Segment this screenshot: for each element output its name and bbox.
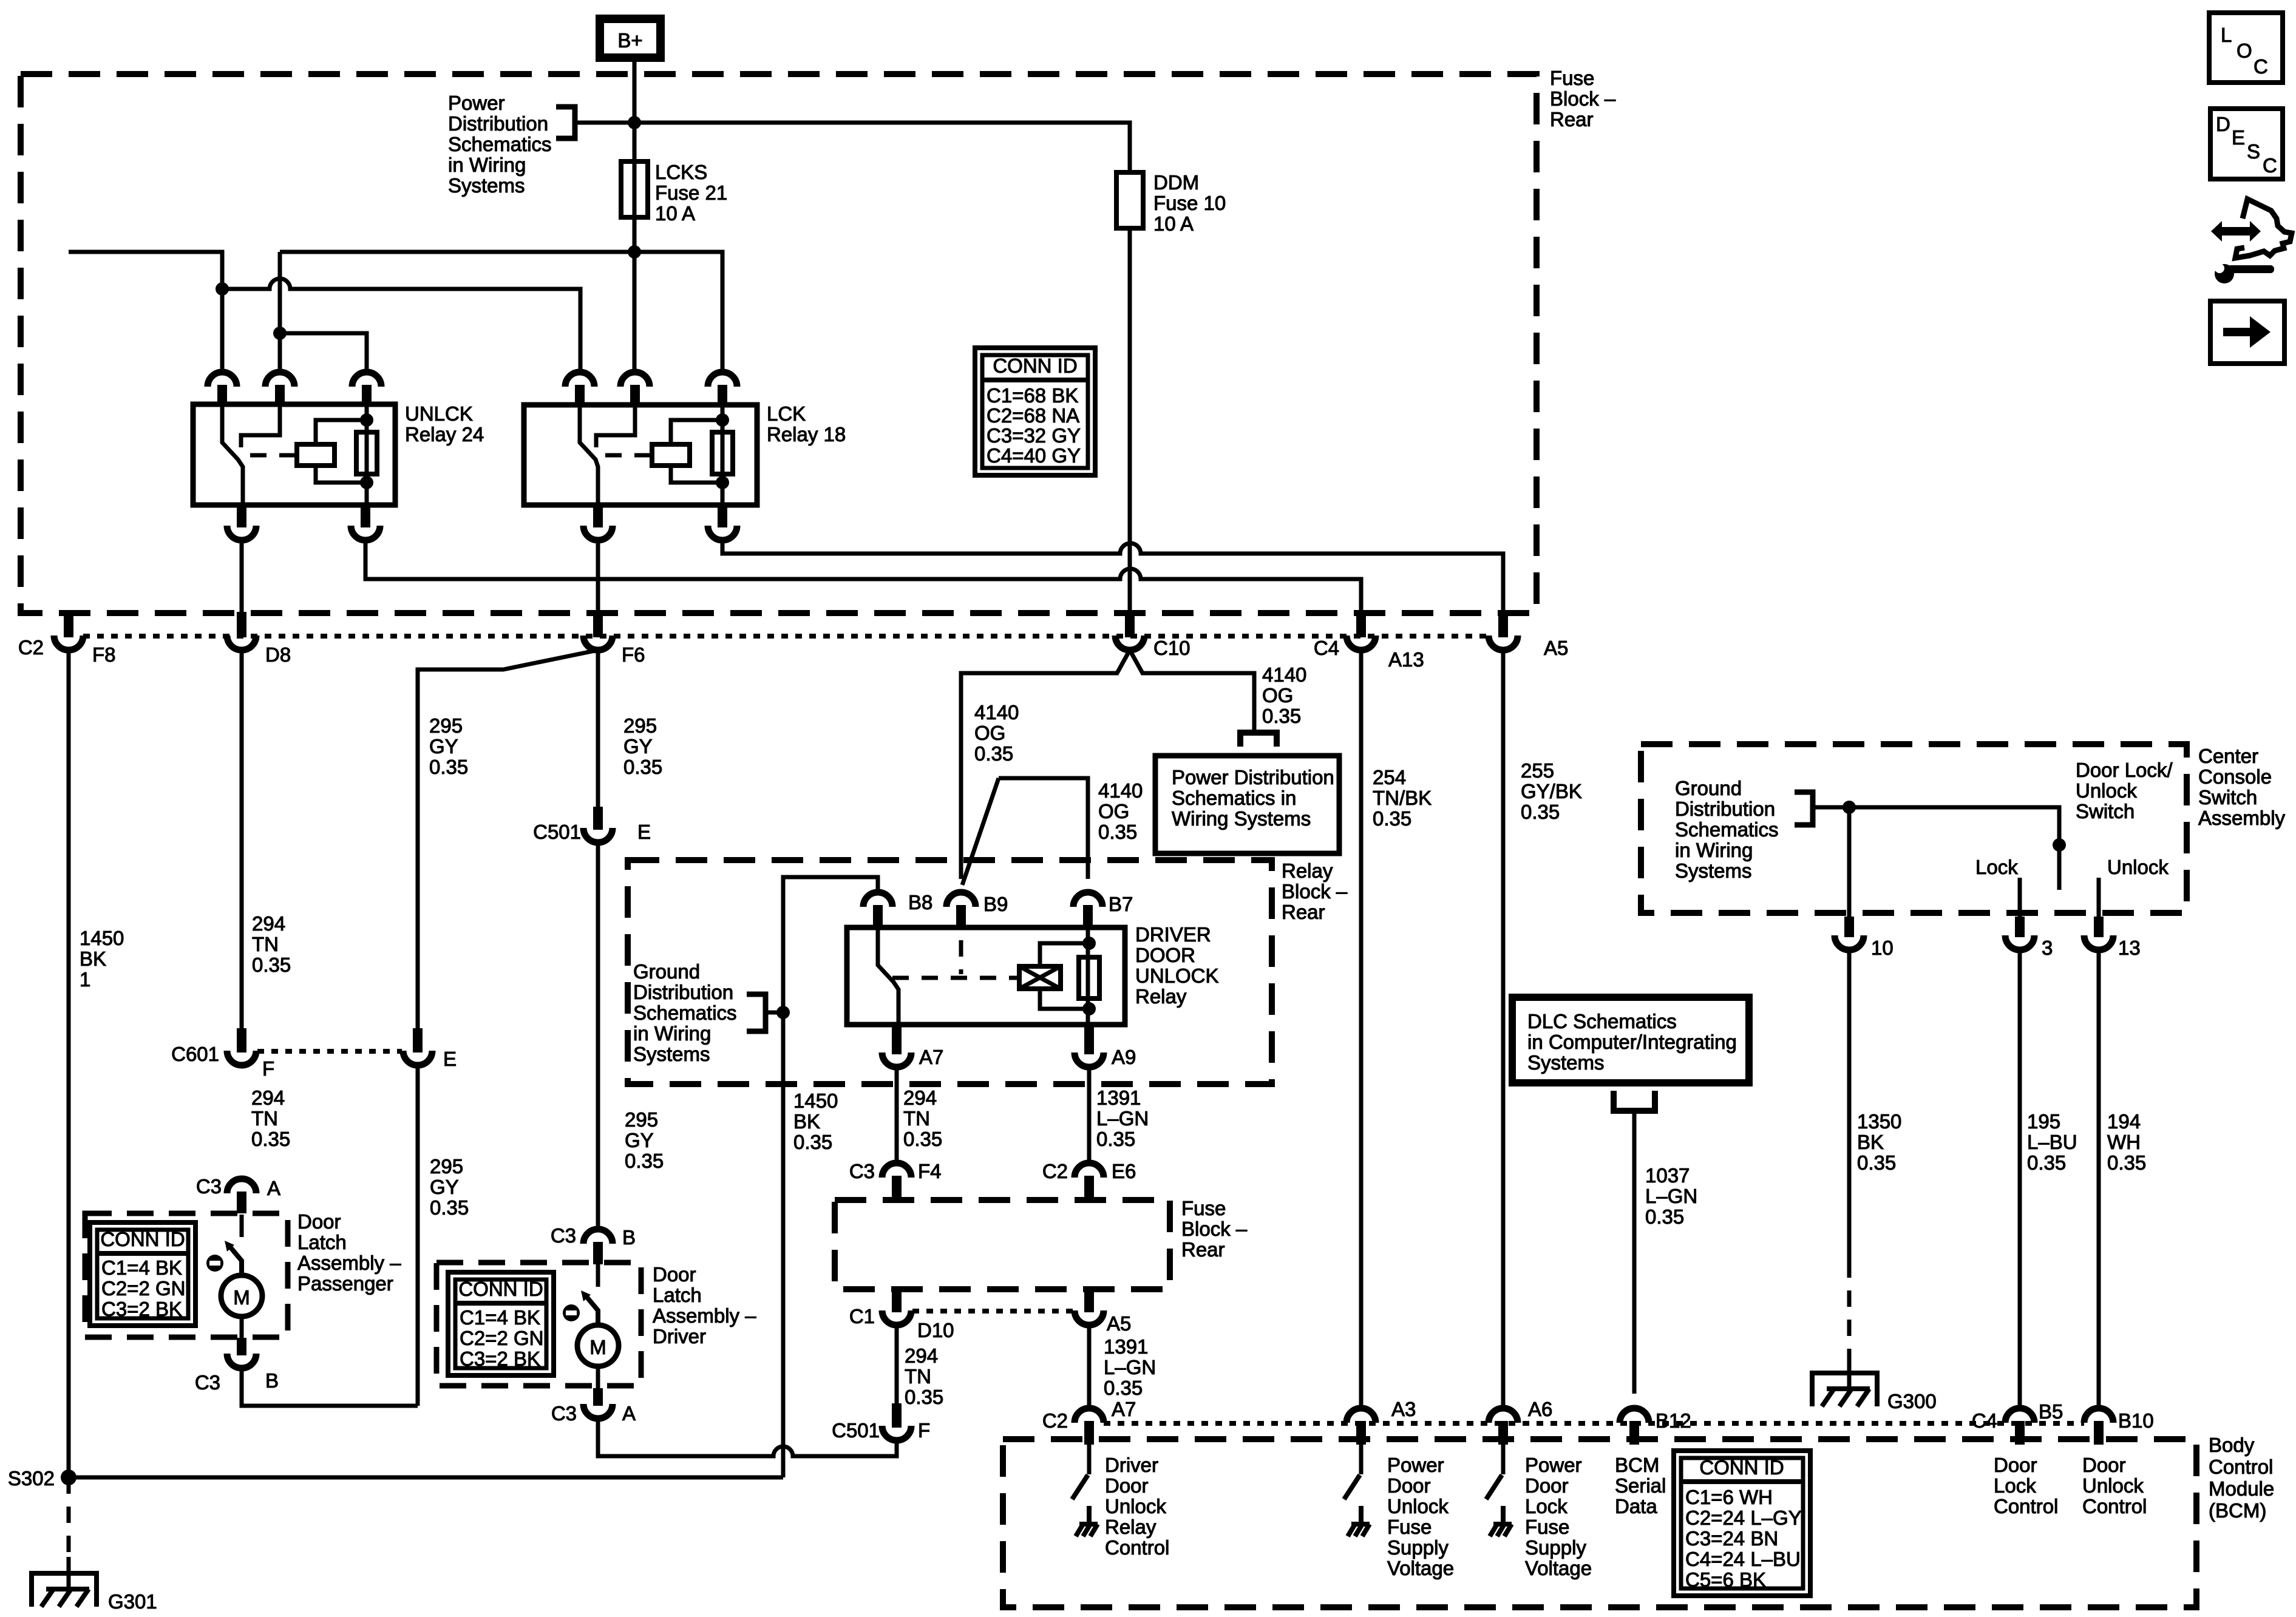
- svg-text:WH: WH: [2107, 1131, 2141, 1153]
- svg-text:in Wiring: in Wiring: [633, 1022, 711, 1045]
- connector C2 E6: [1075, 1163, 1104, 1178]
- connector A6 BCM: [1489, 1408, 1518, 1423]
- relay block rear dashed box: [628, 860, 1272, 1084]
- connector row dotted line: [83, 634, 1489, 639]
- connector A7 relay output: [892, 1026, 902, 1054]
- driver latch switch: [596, 1264, 600, 1287]
- svg-text:Ground: Ground: [633, 960, 700, 983]
- svg-text:Fuse: Fuse: [1387, 1516, 1432, 1538]
- svg-text:A9: A9: [1112, 1046, 1136, 1068]
- svg-text:Supply: Supply: [1525, 1536, 1586, 1559]
- connector pin 2 LCK relay top: [620, 372, 650, 387]
- icon harness with arrow and wrench: [2235, 199, 2292, 258]
- wire E down to passenger join: [416, 1065, 420, 1406]
- wire UNLCK switch output to D8: [240, 540, 244, 616]
- conn id table passenger latch: [90, 1222, 195, 1326]
- svg-text:0.35: 0.35: [1262, 705, 1301, 727]
- wire C10 to B9 branch: [961, 650, 1130, 879]
- svg-text:Distribution: Distribution: [1675, 798, 1775, 820]
- svg-text:CONN ID: CONN ID: [993, 354, 1077, 377]
- svg-text:Center: Center: [2198, 745, 2258, 767]
- svg-text:C3: C3: [195, 1371, 220, 1394]
- connector A3 BCM: [1347, 1408, 1376, 1423]
- svg-text:0.35: 0.35: [1098, 821, 1137, 843]
- svg-text:L–GN: L–GN: [1096, 1107, 1149, 1130]
- svg-text:BK: BK: [1857, 1131, 1884, 1153]
- svg-text:C3=32 GY: C3=32 GY: [987, 424, 1081, 447]
- svg-text:Relay: Relay: [1282, 859, 1333, 882]
- wire 1037 LGN to B12: [1632, 1111, 1637, 1394]
- connector C501 E: [593, 807, 603, 830]
- svg-text:BCM: BCM: [1615, 1454, 1659, 1476]
- svg-text:GY: GY: [429, 735, 458, 758]
- svg-text:Relay 24: Relay 24: [405, 423, 484, 446]
- node LCK resistor top: [716, 413, 729, 427]
- svg-text:0.35: 0.35: [2107, 1151, 2146, 1174]
- svg-text:Door Lock/: Door Lock/: [2076, 759, 2173, 781]
- wire 294 TN from D10 to C501 F: [895, 1325, 899, 1403]
- connector C2 A7 BCM: [1075, 1408, 1104, 1423]
- connector pin 3 LCK relay top: [708, 372, 737, 387]
- svg-text:Door: Door: [653, 1263, 696, 1286]
- svg-text:Control: Control: [1994, 1495, 2058, 1517]
- svg-text:10: 10: [1871, 937, 1894, 959]
- bus wire to UNLCK resistor pin: [280, 333, 367, 372]
- svg-text:1450: 1450: [80, 927, 124, 949]
- svg-text:294: 294: [251, 1086, 285, 1109]
- wire driver latch A to C501 F: [598, 1419, 897, 1456]
- svg-text:Power: Power: [1525, 1454, 1582, 1476]
- svg-text:B: B: [265, 1369, 279, 1392]
- svg-text:Control: Control: [1105, 1536, 1169, 1559]
- connector pin 3: [2015, 917, 2025, 937]
- svg-text:Serial: Serial: [1615, 1474, 1666, 1497]
- svg-text:C501: C501: [832, 1419, 880, 1442]
- svg-text:Assembly –: Assembly –: [653, 1304, 756, 1327]
- relay UNLCK Relay 24 box: [193, 404, 395, 505]
- svg-text:OG: OG: [1262, 684, 1293, 707]
- svg-text:Driver: Driver: [653, 1325, 706, 1347]
- svg-text:Switch: Switch: [2198, 786, 2257, 808]
- svg-text:Control: Control: [2082, 1495, 2147, 1517]
- svg-text:0.35: 0.35: [1857, 1151, 1896, 1174]
- svg-text:295: 295: [429, 714, 463, 737]
- wire LCK switch output to F6: [596, 540, 600, 616]
- wire diagonal to B9: [962, 778, 999, 885]
- svg-text:Unlock: Unlock: [2076, 779, 2137, 802]
- svg-text:Fuse: Fuse: [1181, 1197, 1226, 1219]
- svg-text:Control: Control: [2209, 1456, 2273, 1478]
- svg-text:Fuse 21: Fuse 21: [655, 181, 727, 204]
- svg-text:OG: OG: [1098, 800, 1129, 822]
- UNLCK relay coil: [297, 444, 335, 466]
- node S302: [61, 1470, 76, 1485]
- svg-text:G300: G300: [1887, 1390, 1937, 1412]
- wire C10 to power distribution branch: [1130, 650, 1254, 730]
- svg-text:in Wiring: in Wiring: [448, 154, 526, 176]
- svg-text:A3: A3: [1391, 1398, 1416, 1420]
- svg-text:295: 295: [430, 1155, 463, 1178]
- wire passenger motor to C3 B: [240, 1317, 244, 1340]
- svg-text:0.35: 0.35: [429, 756, 468, 778]
- svg-text:Schematics: Schematics: [448, 133, 552, 155]
- svg-text:C2: C2: [1042, 1409, 1068, 1432]
- svg-text:Systems: Systems: [633, 1043, 710, 1065]
- wire B+ feed down through LCKS fuse to LCK relay coil pin: [633, 62, 637, 372]
- svg-text:Power Distribution: Power Distribution: [1172, 766, 1334, 788]
- connector pin 3 UNLCK relay top: [352, 372, 381, 387]
- connector C3 F4: [882, 1163, 911, 1178]
- svg-text:Unlock: Unlock: [2082, 1474, 2144, 1497]
- svg-text:C4=40 GY: C4=40 GY: [987, 444, 1081, 467]
- connector pin 1 UNLCK relay top: [208, 372, 237, 387]
- svg-text:Door: Door: [1105, 1474, 1149, 1497]
- node driver relay resistor bottom: [1082, 1002, 1096, 1015]
- svg-text:1391: 1391: [1096, 1086, 1141, 1109]
- svg-text:Latch: Latch: [297, 1231, 347, 1253]
- dotted link D10 to A5: [912, 1309, 1073, 1314]
- svg-text:L–GN: L–GN: [1645, 1185, 1697, 1207]
- wire 195 LBU from pin3 to C4 B5: [2018, 950, 2022, 1408]
- connector C4 A13: [1356, 612, 1366, 637]
- wire 255 GY BK from A5 to A6: [1501, 650, 1506, 1408]
- svg-text:Ground: Ground: [1675, 777, 1742, 799]
- svg-text:254: 254: [1373, 766, 1406, 788]
- svg-text:Door: Door: [1387, 1474, 1431, 1497]
- connector UNLCK coil output: [361, 506, 370, 527]
- svg-text:195: 195: [2027, 1110, 2060, 1133]
- svg-text:A: A: [622, 1402, 636, 1425]
- svg-text:L–BU: L–BU: [2027, 1131, 2077, 1153]
- svg-text:Rear: Rear: [1550, 108, 1594, 131]
- svg-text:Assembly –: Assembly –: [297, 1252, 401, 1274]
- svg-text:B8: B8: [908, 891, 932, 914]
- svg-text:Door: Door: [1525, 1474, 1569, 1497]
- svg-text:B12: B12: [1656, 1409, 1691, 1432]
- wire UNLCK coil output to C4: [365, 540, 1361, 616]
- power terminal B+: [600, 19, 661, 58]
- svg-text:TN: TN: [905, 1365, 931, 1388]
- wire LCK coil output to A5: [722, 540, 1503, 616]
- svg-text:C2=24 L–GY: C2=24 L–GY: [1685, 1507, 1802, 1529]
- node ground label tap: [776, 1006, 790, 1019]
- driver latch negative symbol: [563, 1304, 580, 1321]
- svg-text:Wiring Systems: Wiring Systems: [1172, 807, 1311, 830]
- connector LCK switch output: [593, 506, 603, 527]
- connector B9: [946, 892, 976, 907]
- node UNLCK resistor tap: [273, 327, 287, 340]
- node switch common: [2053, 838, 2066, 852]
- connector A9 relay output: [1084, 1026, 1094, 1054]
- svg-text:0.35: 0.35: [625, 1150, 664, 1172]
- svg-text:Block –: Block –: [1181, 1218, 1248, 1240]
- UNLCK relay NO contact from pin2: [241, 404, 280, 447]
- svg-text:Power: Power: [1387, 1454, 1444, 1476]
- svg-text:Relay: Relay: [1105, 1516, 1156, 1538]
- connector B10 BCM: [2084, 1408, 2113, 1423]
- node UNLCK resistor bottom: [360, 476, 373, 489]
- bus wire fused feed to relay coil pins: [280, 252, 722, 372]
- svg-text:B: B: [622, 1226, 636, 1249]
- svg-text:C1=4 BK: C1=4 BK: [460, 1306, 540, 1329]
- svg-text:1037: 1037: [1645, 1164, 1690, 1187]
- svg-text:D10: D10: [917, 1319, 954, 1341]
- svg-text:C: C: [2263, 154, 2277, 177]
- connector UNLCK switch output: [237, 506, 246, 527]
- svg-text:3: 3: [2042, 937, 2053, 959]
- driver relay coil to resistor wires: [1040, 943, 1089, 1009]
- bracket ground distribution console: [1795, 792, 1813, 825]
- svg-text:C2=2 GN: C2=2 GN: [460, 1327, 543, 1349]
- svg-text:Unlock: Unlock: [1105, 1495, 1166, 1517]
- svg-text:D8: D8: [265, 643, 291, 666]
- svg-text:E: E: [2232, 126, 2245, 149]
- svg-text:C601: C601: [171, 1043, 219, 1065]
- svg-text:0.35: 0.35: [905, 1386, 943, 1408]
- svg-text:Supply: Supply: [1387, 1536, 1449, 1559]
- node console feed tap: [1843, 801, 1856, 814]
- svg-text:F: F: [262, 1057, 274, 1080]
- passenger latch switch: [240, 1215, 244, 1237]
- svg-text:255: 255: [1521, 759, 1554, 782]
- svg-text:Assembly: Assembly: [2198, 807, 2286, 829]
- svg-text:C: C: [2254, 55, 2268, 78]
- fuse block rear small dashed box: [835, 1200, 1170, 1289]
- LCK relay NO contact from pin2: [596, 405, 635, 447]
- connector pin 1 LCK relay top: [565, 372, 594, 387]
- svg-text:S302: S302: [8, 1467, 55, 1490]
- svg-text:Fuse: Fuse: [1525, 1516, 1569, 1538]
- svg-text:Console: Console: [2198, 765, 2272, 788]
- center console switch assembly dashed box: [1641, 744, 2187, 913]
- connector A5: [1498, 612, 1508, 637]
- svg-text:O: O: [2237, 39, 2252, 62]
- svg-text:0.35: 0.35: [1373, 807, 1411, 830]
- svg-text:A6: A6: [1528, 1398, 1552, 1420]
- LCK relay resistor: [721, 405, 725, 505]
- svg-text:F: F: [918, 1419, 930, 1442]
- svg-text:Fuse: Fuse: [1550, 67, 1594, 89]
- svg-text:4140: 4140: [1098, 779, 1143, 802]
- connector pin 13: [2094, 917, 2104, 937]
- svg-text:C1=4 BK: C1=4 BK: [101, 1256, 182, 1279]
- svg-text:295: 295: [623, 714, 657, 737]
- svg-text:B7: B7: [1109, 893, 1133, 915]
- svg-text:194: 194: [2107, 1110, 2141, 1133]
- svg-text:10 A: 10 A: [655, 202, 695, 225]
- conn id table fuse block: [975, 348, 1095, 475]
- connector E: [413, 1028, 423, 1053]
- connector pin 2 UNLCK relay top: [265, 372, 294, 387]
- svg-text:C4=24 L–BU: C4=24 L–BU: [1685, 1548, 1801, 1570]
- wire console common feed: [1813, 807, 2059, 890]
- wire 295 GY from C501 E to driver latch: [596, 842, 600, 1229]
- svg-text:GY: GY: [623, 735, 653, 758]
- LCK relay mechanical link dashed: [605, 453, 652, 458]
- dotted row BCM connectors: [1104, 1421, 2084, 1426]
- node busbar2 tap: [216, 282, 229, 296]
- svg-text:B10: B10: [2118, 1409, 2154, 1432]
- svg-text:L: L: [2221, 24, 2232, 46]
- svg-text:S: S: [2247, 140, 2260, 163]
- svg-text:F6: F6: [622, 643, 645, 666]
- svg-text:0.35: 0.35: [2027, 1151, 2066, 1174]
- door latch assembly driver dashed box: [436, 1263, 641, 1386]
- svg-text:Unlock: Unlock: [2107, 856, 2169, 878]
- svg-text:B+: B+: [617, 29, 642, 52]
- svg-text:DRIVER: DRIVER: [1135, 923, 1211, 946]
- svg-text:CONN ID: CONN ID: [1699, 1456, 1784, 1479]
- conn id table driver latch: [448, 1272, 554, 1375]
- bracket power distribution label: [556, 107, 575, 138]
- svg-text:A: A: [267, 1177, 280, 1199]
- icon DESC box: [2210, 109, 2283, 179]
- svg-text:C1=6 WH: C1=6 WH: [1685, 1486, 1773, 1508]
- svg-text:UNLOCK: UNLOCK: [1135, 964, 1219, 987]
- svg-text:0.35: 0.35: [1645, 1205, 1684, 1228]
- svg-text:Relay 18: Relay 18: [767, 423, 846, 446]
- body control module dashed box: [1003, 1439, 2196, 1607]
- svg-text:CONN ID: CONN ID: [100, 1228, 185, 1250]
- UNLCK relay mechanical link dashed: [250, 453, 297, 458]
- bus wire to F8 and relay switch pins: [69, 252, 222, 372]
- svg-text:Rear: Rear: [1282, 901, 1325, 923]
- wire unlock contact: [2097, 878, 2101, 921]
- svg-text:Door: Door: [1994, 1454, 2037, 1476]
- wire 294 TN from D8 to C601: [240, 650, 244, 1030]
- svg-text:Data: Data: [1615, 1495, 1657, 1517]
- svg-text:Voltage: Voltage: [1387, 1557, 1454, 1579]
- svg-text:GY: GY: [625, 1129, 654, 1151]
- svg-text:294: 294: [252, 912, 285, 935]
- svg-text:C5=6 BK: C5=6 BK: [1685, 1568, 1766, 1591]
- svg-text:Module: Module: [2209, 1477, 2274, 1500]
- svg-text:C2: C2: [18, 636, 44, 659]
- svg-text:Latch: Latch: [653, 1284, 702, 1306]
- wire 1450 BK from F8 to S302: [67, 650, 71, 1477]
- door latch assembly passenger dashed box: [85, 1213, 288, 1337]
- svg-text:0.35: 0.35: [623, 756, 662, 778]
- svg-text:Systems: Systems: [1675, 859, 1752, 882]
- svg-text:Block –: Block –: [1550, 87, 1616, 110]
- wire 254 TN BK from C4 to A3: [1359, 650, 1364, 1408]
- svg-text:C3: C3: [196, 1175, 222, 1198]
- svg-text:C501: C501: [533, 821, 581, 843]
- icon right arrow box: [2210, 301, 2284, 364]
- conn id table BCM: [1674, 1451, 1810, 1596]
- svg-text:1450: 1450: [793, 1090, 838, 1112]
- svg-text:1350: 1350: [1857, 1110, 1901, 1133]
- svg-text:BK: BK: [793, 1110, 820, 1133]
- svg-text:Unlock: Unlock: [1387, 1495, 1449, 1517]
- svg-text:Lock: Lock: [1994, 1474, 2036, 1497]
- wire lock contact: [2018, 878, 2022, 921]
- svg-text:C3: C3: [551, 1224, 576, 1247]
- svg-text:C1=68 BK: C1=68 BK: [987, 384, 1078, 407]
- svg-text:TN/BK: TN/BK: [1373, 787, 1432, 809]
- svg-text:C3: C3: [551, 1402, 577, 1425]
- svg-text:L–GN: L–GN: [1104, 1356, 1156, 1378]
- connector D8: [237, 612, 246, 637]
- UNLCK relay resistor: [365, 404, 369, 505]
- svg-text:DOOR: DOOR: [1135, 944, 1195, 966]
- svg-text:Power: Power: [448, 92, 505, 114]
- svg-text:CONN ID: CONN ID: [458, 1278, 543, 1300]
- svg-text:0.35: 0.35: [1521, 801, 1560, 823]
- passenger latch negative symbol: [206, 1255, 223, 1272]
- svg-text:F4: F4: [918, 1160, 942, 1182]
- svg-text:13: 13: [2118, 937, 2141, 959]
- svg-text:DDM: DDM: [1153, 171, 1199, 194]
- wire B7 feed horizontal: [999, 778, 1088, 879]
- node LCK resistor bottom: [716, 476, 729, 489]
- connector C4 B5 BCM: [2005, 1408, 2034, 1423]
- svg-text:GY: GY: [430, 1176, 459, 1198]
- dotted link C601 to E: [257, 1049, 402, 1054]
- svg-text:Fuse 10: Fuse 10: [1153, 192, 1226, 214]
- svg-text:in Wiring: in Wiring: [1675, 839, 1753, 861]
- svg-text:M: M: [589, 1336, 606, 1358]
- svg-text:LCKS: LCKS: [655, 161, 707, 183]
- page bracket to power distribution box: [1240, 733, 1277, 747]
- svg-text:4140: 4140: [974, 701, 1019, 724]
- connector C501 F: [892, 1403, 902, 1428]
- svg-text:294: 294: [903, 1086, 937, 1109]
- power distribution schematics box: [1155, 756, 1339, 853]
- svg-text:Door: Door: [297, 1210, 341, 1233]
- motor passenger door latch: [221, 1275, 262, 1317]
- svg-text:E6: E6: [1112, 1160, 1136, 1182]
- connector C3 B driver: [583, 1229, 613, 1244]
- svg-text:C2=2 GN: C2=2 GN: [101, 1277, 185, 1300]
- node UNLCK resistor top: [360, 413, 373, 427]
- svg-text:TN: TN: [903, 1107, 930, 1130]
- svg-text:B9: B9: [983, 893, 1008, 915]
- svg-text:0.35: 0.35: [252, 954, 291, 976]
- wire 295 GY branch from F6 to E: [418, 650, 598, 1030]
- svg-text:1: 1: [80, 968, 90, 991]
- svg-text:Schematics: Schematics: [1675, 818, 1779, 841]
- driver door unlock relay control switch: [1087, 1443, 1092, 1474]
- svg-text:A5: A5: [1107, 1312, 1131, 1335]
- svg-text:TN: TN: [251, 1107, 278, 1130]
- driver door unlock relay control dashed link: [959, 940, 963, 974]
- svg-text:Door: Door: [2082, 1454, 2126, 1476]
- svg-text:G301: G301: [108, 1590, 157, 1613]
- wire 294 TN from A7 to C3 F4: [895, 1067, 899, 1163]
- connector C2 F8: [64, 612, 73, 637]
- wire 1391 LGN from A9 to E6: [1087, 1067, 1092, 1163]
- svg-text:Body: Body: [2209, 1434, 2255, 1456]
- svg-text:A7: A7: [919, 1046, 943, 1068]
- power door lock fuse switch: [1501, 1443, 1506, 1474]
- wire 1391 LGN from A5 to BCM A7: [1087, 1325, 1092, 1408]
- wire passenger B to E wire: [242, 1368, 418, 1406]
- wire DDM fuse to connector C10: [1128, 228, 1132, 616]
- driver door unlock relay switch: [878, 927, 898, 1025]
- motor driver door latch: [577, 1325, 619, 1366]
- svg-text:1391: 1391: [1104, 1335, 1148, 1358]
- LCK relay coil: [652, 444, 690, 466]
- connector B8: [863, 892, 892, 907]
- svg-text:10 A: 10 A: [1153, 212, 1194, 235]
- svg-text:M: M: [233, 1286, 250, 1309]
- svg-text:Switch: Switch: [2076, 800, 2135, 822]
- svg-text:294: 294: [905, 1344, 938, 1367]
- wire 1350 BK from pin10: [1847, 950, 1852, 1261]
- wire feeder from power distribution to DDM fuse: [575, 123, 1130, 172]
- connector pin 10: [1844, 917, 1854, 937]
